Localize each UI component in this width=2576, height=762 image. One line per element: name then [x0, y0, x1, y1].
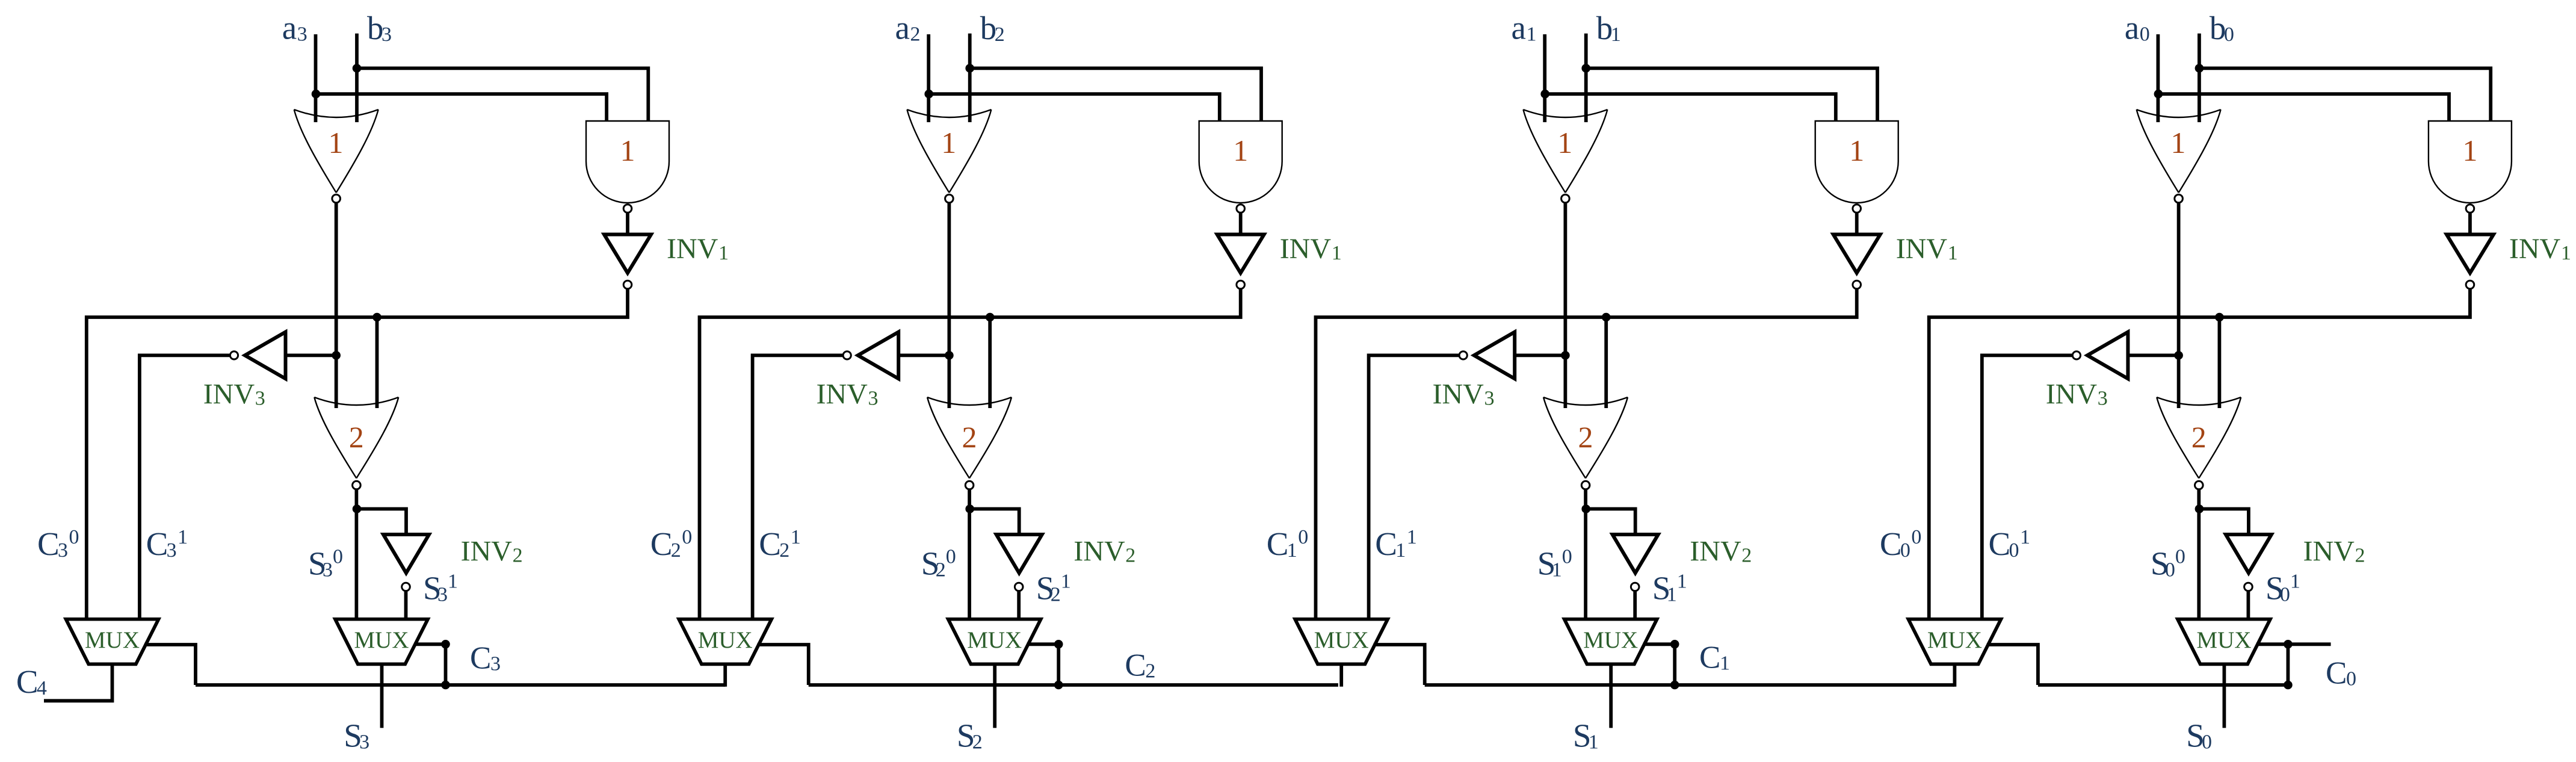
wire tap to INV3 input — [1516, 354, 1566, 358]
wire INV1 output to C20 branch — [700, 290, 1241, 621]
inverter INV2 bit2 bubble — [1015, 583, 1023, 591]
mux carry bit3 body — [66, 619, 159, 664]
svg-text:0: 0 — [2346, 668, 2356, 690]
xnor gate 2 bit3 output bubble — [353, 481, 361, 489]
inverter INV2 bit1 bubble — [1631, 583, 1639, 591]
svg-text:0: 0 — [1911, 526, 1921, 548]
wire b3 to NAND right input — [357, 68, 648, 121]
svg-text:1: 1 — [1849, 134, 1864, 167]
xnor gate 1 bit0 body — [2137, 110, 2221, 193]
svg-text:MUX: MUX — [967, 627, 1022, 653]
net label b1 — [1596, 10, 1621, 46]
svg-text:0: 0 — [2280, 583, 2290, 606]
wire a2 input vertical — [927, 34, 930, 122]
wire INV2 output S01 to sum mux — [2246, 592, 2250, 621]
junction sum-mux select corner — [1670, 640, 1679, 649]
net label S1 — [1573, 717, 1599, 754]
wire sum output S3 — [380, 664, 384, 728]
svg-text:2: 2 — [936, 559, 946, 581]
label INV3 — [2046, 378, 2108, 410]
svg-text:C: C — [650, 525, 673, 562]
junction INV3 input tap — [1561, 351, 1570, 360]
svg-text:INV: INV — [2509, 233, 2561, 265]
svg-text:1: 1 — [1287, 539, 1297, 562]
svg-text:INV: INV — [817, 378, 868, 410]
net label b3 — [367, 10, 392, 46]
xnor gate 2 bit2 body — [927, 397, 1012, 479]
junction b2 branch — [965, 64, 974, 73]
svg-text:1: 1 — [941, 126, 956, 160]
junction sum-mux select corner — [441, 640, 450, 649]
wire INV2 output S11 to sum mux — [1633, 592, 1637, 621]
svg-text:2: 2 — [1125, 544, 1135, 566]
svg-text:C: C — [1699, 640, 1720, 675]
svg-text:1: 1 — [2020, 526, 2030, 548]
svg-text:1: 1 — [2290, 570, 2300, 592]
wire sum output S1 — [1609, 664, 1613, 728]
net label S01 — [2266, 569, 2300, 606]
svg-text:3: 3 — [255, 387, 265, 409]
junction INV2 input tap — [353, 504, 362, 513]
xnor gate 2 bit1 output bubble — [1581, 481, 1590, 489]
svg-text:0: 0 — [682, 526, 692, 548]
svg-text:2: 2 — [1578, 420, 1593, 454]
svg-text:1: 1 — [1611, 23, 1621, 46]
junction INV3 input tap — [945, 351, 954, 360]
wire tap to xnor2 right input — [375, 317, 379, 408]
wire a3 to NAND left input — [316, 94, 607, 121]
svg-text:0: 0 — [1900, 539, 1910, 562]
xnor gate 1 bit1 output bubble — [1561, 194, 1570, 203]
junction sum-mux select on rail — [1054, 681, 1063, 690]
net label S30 — [308, 545, 343, 582]
inverter INV1 bit2 — [1217, 235, 1264, 273]
net label C00 — [1880, 525, 1922, 562]
label INV1 — [667, 233, 729, 265]
wire b3 input vertical — [355, 34, 359, 122]
svg-text:1: 1 — [2462, 134, 2477, 167]
net label C30 — [37, 525, 79, 562]
svg-text:1: 1 — [329, 126, 344, 160]
svg-text:0: 0 — [2202, 731, 2212, 754]
wire tap to INV3 input — [2130, 354, 2179, 358]
wire tap to xnor2 right input — [988, 317, 992, 408]
inverter INV3 bit0 — [2087, 332, 2128, 379]
wire carry select rail C3 — [196, 683, 725, 687]
junction a1 branch — [1540, 90, 1549, 99]
net label S21 — [1036, 569, 1071, 606]
svg-text:0: 0 — [2009, 539, 2019, 562]
xnor gate 2 bit1 body — [1543, 397, 1628, 479]
nand gate 1 bit1 body — [1815, 121, 1898, 203]
net label a0 — [2125, 10, 2150, 46]
nand gate 1 bit2 output bubble — [1237, 205, 1245, 213]
net label C31 — [146, 525, 188, 562]
svg-text:a: a — [282, 10, 297, 46]
wire carry-mux output to rail — [1339, 664, 1343, 686]
wire b0 input vertical — [2198, 34, 2201, 122]
mux sum bit0 body — [2178, 619, 2270, 664]
label INV3 — [203, 378, 265, 410]
inverter INV3 bit1 — [1474, 332, 1515, 379]
wire carry-mux select — [758, 645, 809, 685]
svg-text:a: a — [895, 10, 910, 46]
wire b1 to NAND right input — [1586, 68, 1877, 121]
junction b0 branch — [2195, 64, 2204, 73]
svg-text:3: 3 — [167, 539, 177, 562]
svg-text:0: 0 — [946, 546, 956, 568]
wire a0 to NAND left input — [2158, 94, 2449, 121]
wire b1 input vertical — [1584, 34, 1588, 122]
svg-text:3: 3 — [1484, 387, 1495, 409]
junction a0 branch — [2154, 90, 2163, 99]
net label S00 — [2151, 545, 2185, 582]
svg-text:MUX: MUX — [2196, 627, 2251, 653]
wire sum-mux select — [1643, 644, 1675, 685]
svg-text:2: 2 — [671, 539, 681, 562]
wire nand output to INV1 — [1239, 214, 1243, 235]
svg-text:1: 1 — [2561, 242, 2571, 264]
junction a2 branch — [924, 90, 933, 99]
svg-text:INV: INV — [2303, 535, 2355, 567]
svg-text:1: 1 — [1557, 126, 1572, 160]
wire xnor1 output to xnor2 left input — [948, 203, 951, 408]
wire b2 input vertical — [968, 34, 972, 122]
svg-text:3: 3 — [359, 731, 369, 754]
wire carry-mux select — [1987, 645, 2038, 685]
junction INV3 input tap — [332, 351, 341, 360]
junction xnor2 right input tap — [986, 313, 995, 322]
junction sum-mux select on rail — [2284, 681, 2293, 690]
wire xnor2 output S30 to sum mux — [355, 490, 359, 621]
wire a1 to NAND left input — [1545, 94, 1836, 121]
svg-text:3: 3 — [2098, 387, 2108, 409]
net label S0 — [2186, 717, 2212, 754]
svg-text:1: 1 — [1667, 583, 1677, 606]
wire carry select rail C1 — [1425, 683, 1954, 687]
inverter INV2 bit0 bubble — [2244, 583, 2253, 591]
svg-text:0: 0 — [2140, 23, 2150, 46]
mux sum bit3 body — [335, 619, 428, 664]
net label C0 — [2326, 656, 2356, 691]
svg-text:1: 1 — [1527, 23, 1537, 46]
svg-text:C: C — [1375, 525, 1397, 562]
inverter INV2 bit1 — [1613, 534, 1658, 573]
svg-text:0: 0 — [1562, 546, 1572, 568]
label INV1 — [2509, 233, 2571, 265]
wire INV1 output to C30 branch — [87, 290, 628, 621]
net label a1 — [1512, 10, 1537, 46]
xnor gate 1 bit2 body — [907, 110, 991, 193]
svg-text:2: 2 — [1051, 583, 1061, 606]
wire carry out C4 — [44, 664, 113, 701]
svg-text:INV: INV — [1073, 535, 1125, 567]
svg-text:0: 0 — [2224, 23, 2234, 46]
wire tap to INV3 input — [900, 354, 950, 358]
nand gate 1 bit0 body — [2429, 121, 2512, 203]
junction b1 branch — [1581, 64, 1590, 73]
svg-text:3: 3 — [323, 559, 333, 581]
svg-text:2: 2 — [972, 731, 983, 754]
mux sum bit1 body — [1564, 619, 1657, 664]
label INV3 — [1433, 378, 1495, 410]
svg-text:INV: INV — [461, 535, 513, 567]
xnor gate 1 bit2 output bubble — [945, 194, 954, 203]
svg-text:INV: INV — [1690, 535, 1741, 567]
svg-text:2: 2 — [349, 420, 364, 454]
inverter INV2 bit0 — [2226, 534, 2272, 573]
junction sum-mux select corner — [1054, 640, 1063, 649]
svg-text:INV: INV — [1433, 378, 1484, 410]
svg-text:1: 1 — [178, 526, 188, 548]
wire INV1 output to C00 branch — [1929, 290, 2470, 621]
inverter INV1 bit1 — [1833, 235, 1880, 273]
svg-text:a: a — [2125, 10, 2139, 46]
wire xnor2 output S10 to sum mux — [1584, 490, 1587, 621]
svg-text:1: 1 — [1395, 539, 1406, 562]
svg-text:C: C — [146, 525, 168, 562]
label INV2 — [1690, 535, 1752, 567]
svg-text:1: 1 — [620, 134, 635, 167]
junction b3 branch — [353, 64, 362, 73]
wire INV3 output to C31 branch — [140, 355, 230, 621]
net label C10 — [1267, 525, 1309, 562]
net label b2 — [980, 10, 1005, 46]
wire a1 input vertical — [1543, 34, 1546, 122]
mux carry bit2 body — [679, 619, 771, 664]
net label C3 — [470, 640, 501, 675]
svg-text:3: 3 — [297, 23, 307, 46]
label INV2 — [2303, 535, 2365, 567]
inverter INV1 bit2 bubble — [1237, 280, 1245, 289]
svg-text:C: C — [470, 640, 491, 675]
net label a3 — [282, 10, 307, 46]
junction INV2 input tap — [1581, 504, 1590, 513]
svg-text:MUX: MUX — [1583, 627, 1638, 653]
svg-text:0: 0 — [69, 526, 79, 548]
svg-text:INV: INV — [1280, 233, 1332, 265]
svg-text:C: C — [2326, 656, 2347, 691]
svg-text:a: a — [1512, 10, 1526, 46]
svg-text:3: 3 — [58, 539, 68, 562]
wire INV3 output to C21 branch — [753, 355, 843, 621]
inverter INV3 bit2 bubble — [843, 352, 851, 359]
net label C20 — [650, 525, 693, 562]
wire b0 to NAND right input — [2199, 68, 2491, 121]
svg-text:0: 0 — [2175, 546, 2185, 568]
wire tap to INV2 input — [2199, 509, 2249, 535]
svg-text:1: 1 — [1233, 134, 1248, 167]
wire carry-mux select — [144, 645, 196, 685]
net label S31 — [423, 569, 458, 606]
svg-text:MUX: MUX — [354, 627, 409, 653]
wire carry select rail C2 — [809, 683, 1338, 687]
wire sum-mux select — [1027, 644, 1059, 685]
svg-text:C: C — [759, 525, 781, 562]
svg-text:INV: INV — [203, 378, 255, 410]
xnor gate 1 bit0 output bubble — [2175, 194, 2183, 203]
junction INV3 input tap — [2174, 351, 2183, 360]
inverter INV3 bit2 — [858, 332, 899, 379]
wire xnor1 output to xnor2 left input — [2177, 203, 2181, 408]
svg-text:MUX: MUX — [1927, 627, 1982, 653]
svg-text:INV: INV — [2046, 378, 2098, 410]
svg-text:2: 2 — [2191, 420, 2207, 454]
inverter INV3 bit3 — [245, 332, 286, 379]
junction INV2 input tap — [2195, 504, 2204, 513]
svg-text:2: 2 — [513, 544, 523, 566]
net label C2 — [1125, 648, 1155, 683]
svg-text:3: 3 — [381, 23, 392, 46]
junction a3 branch — [312, 90, 321, 99]
svg-text:1: 1 — [1948, 242, 1958, 264]
wire carry-mux output to rail — [723, 664, 727, 686]
net label C1 — [1699, 640, 1730, 675]
wire tap to xnor2 right input — [1604, 317, 1608, 408]
svg-text:2: 2 — [995, 23, 1005, 46]
inverter INV1 bit0 bubble — [2466, 280, 2474, 289]
wire nand output to INV1 — [1855, 214, 1859, 235]
net label b0 — [2210, 10, 2234, 46]
inverter INV3 bit3 bubble — [230, 352, 238, 359]
wire nand output to INV1 — [2468, 214, 2472, 235]
wire INV2 output S21 to sum mux — [1017, 592, 1021, 621]
net label a2 — [895, 10, 921, 46]
svg-text:2: 2 — [962, 420, 977, 454]
wire tap to INV2 input — [970, 509, 1019, 535]
inverter INV2 bit3 — [383, 534, 429, 573]
svg-text:1: 1 — [791, 526, 801, 548]
wire tap to xnor2 right input — [2217, 317, 2221, 408]
wire carry-mux select — [1374, 645, 1425, 685]
label INV1 — [1280, 233, 1342, 265]
svg-text:MUX: MUX — [698, 627, 753, 653]
wire sum output S2 — [993, 664, 996, 728]
svg-text:C: C — [37, 525, 60, 562]
inverter INV1 bit3 — [604, 235, 651, 273]
wire sum-mux select — [2256, 644, 2288, 685]
svg-text:INV: INV — [1896, 233, 1948, 265]
svg-text:2: 2 — [2355, 544, 2365, 566]
wire xnor1 output to xnor2 left input — [1563, 203, 1567, 408]
mux carry bit1 body — [1295, 619, 1388, 664]
label INV3 — [817, 378, 879, 410]
svg-text:3: 3 — [868, 387, 879, 409]
junction xnor2 right input tap — [372, 313, 381, 322]
svg-text:1: 1 — [1677, 570, 1687, 592]
net label S3 — [344, 717, 369, 754]
svg-text:INV: INV — [667, 233, 718, 265]
svg-text:2: 2 — [1741, 544, 1752, 566]
net label C11 — [1375, 525, 1417, 562]
inverter INV3 bit1 bubble — [1459, 352, 1467, 359]
wire b2 to NAND right input — [970, 68, 1261, 121]
nand gate 1 bit1 output bubble — [1853, 205, 1861, 213]
wire tap to INV2 input — [1586, 509, 1635, 535]
wire a3 input vertical — [314, 34, 318, 122]
svg-text:0: 0 — [2165, 559, 2175, 581]
label INV2 — [1073, 535, 1135, 567]
inverter INV2 bit2 — [996, 534, 1042, 573]
svg-text:3: 3 — [490, 652, 501, 675]
mux carry bit0 body — [1908, 619, 2001, 664]
junction xnor2 right input tap — [1602, 313, 1611, 322]
net label S20 — [921, 545, 956, 582]
wire xnor2 output S20 to sum mux — [968, 490, 971, 621]
xnor gate 1 bit1 body — [1523, 110, 1607, 193]
svg-text:2: 2 — [779, 539, 789, 562]
wire tap to INV3 input — [287, 354, 336, 358]
svg-text:2: 2 — [910, 23, 921, 46]
junction sum-mux select on rail — [441, 681, 450, 690]
nand gate 1 bit3 output bubble — [623, 205, 632, 213]
net label S2 — [957, 717, 983, 754]
wire INV3 output to C11 branch — [1369, 355, 1459, 621]
svg-text:3: 3 — [437, 583, 448, 606]
wire nand output to INV1 — [626, 214, 629, 235]
svg-text:0: 0 — [1298, 526, 1308, 548]
svg-text:C: C — [1267, 525, 1289, 562]
xnor gate 2 bit0 body — [2157, 397, 2241, 479]
svg-text:C: C — [1880, 525, 1902, 562]
wire carry select rail C0 — [2038, 683, 2288, 687]
svg-text:2: 2 — [1145, 660, 1155, 683]
svg-text:1: 1 — [1332, 242, 1342, 264]
svg-text:1: 1 — [718, 242, 729, 264]
svg-text:MUX: MUX — [85, 627, 140, 653]
svg-text:1: 1 — [1061, 570, 1071, 592]
mux sum bit2 body — [948, 619, 1041, 664]
wire carry input C0 stub — [2288, 642, 2330, 646]
svg-text:0: 0 — [333, 546, 343, 568]
svg-text:C: C — [1125, 648, 1146, 683]
svg-text:1: 1 — [448, 570, 458, 592]
wire sum output S0 — [2222, 664, 2226, 728]
xnor gate 2 bit0 output bubble — [2195, 481, 2204, 489]
label INV2 — [461, 535, 523, 567]
svg-text:1: 1 — [2170, 126, 2185, 160]
inverter INV1 bit3 bubble — [623, 280, 632, 289]
svg-text:MUX: MUX — [1314, 627, 1369, 653]
svg-text:1: 1 — [1552, 559, 1562, 581]
svg-text:C: C — [1989, 525, 2011, 562]
xnor gate 1 bit3 body — [294, 110, 378, 193]
svg-text:1: 1 — [1589, 731, 1599, 754]
wire a0 input vertical — [2156, 34, 2160, 122]
net label C01 — [1989, 525, 2031, 562]
wire xnor2 output S00 to sum mux — [2197, 490, 2201, 621]
wire carry-mux output to rail — [1953, 664, 1956, 686]
nand gate 1 bit3 body — [586, 121, 669, 203]
xnor gate 2 bit2 output bubble — [965, 481, 974, 489]
svg-text:1: 1 — [1720, 652, 1730, 674]
svg-text:C: C — [16, 663, 39, 700]
inverter INV3 bit0 bubble — [2072, 352, 2080, 359]
wire sum-mux select — [414, 644, 446, 685]
wire tap to INV2 input — [357, 509, 406, 535]
xnor gate 2 bit3 body — [314, 397, 398, 479]
wire INV2 output S31 to sum mux — [404, 592, 408, 621]
net label C4 — [16, 663, 47, 700]
svg-text:4: 4 — [37, 677, 47, 699]
inverter INV2 bit3 bubble — [402, 583, 410, 591]
inverter INV1 bit1 bubble — [1853, 280, 1861, 289]
wire INV1 output to C10 branch — [1316, 290, 1857, 621]
net label C21 — [759, 525, 801, 562]
label INV1 — [1896, 233, 1958, 265]
junction sum-mux select corner — [2284, 640, 2293, 649]
nand gate 1 bit2 body — [1199, 121, 1282, 203]
